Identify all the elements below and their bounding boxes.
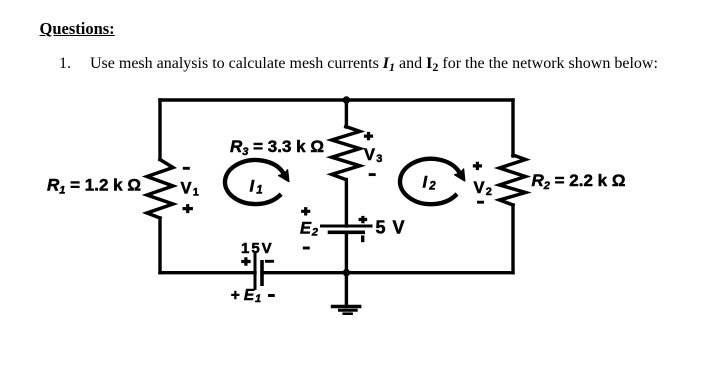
label V2 minus [477,201,484,204]
svg-text:I1: I1 [250,178,263,197]
resistor R2 [500,155,526,205]
battery E2 plate long [320,225,373,228]
battery E2 plate short [328,231,365,235]
svg-text:V1: V1 [181,180,199,199]
node top junction [343,96,350,103]
svg-text:R3 = 3.3 k Ω: R3 = 3.3 k Ω [230,137,324,158]
wire left lower [158,218,161,273]
mesh arrow I1 [225,160,289,204]
svg-text:I2: I2 [423,174,437,193]
wire right lower [511,205,514,273]
battery E1 minus mark [265,260,274,263]
label E2 plus [301,207,310,215]
battery E2 minus tick [361,235,364,242]
mesh arrow I2 [400,159,465,204]
svg-text:V3: V3 [364,146,382,165]
wire middle between R3 and E2 [345,180,348,227]
wire top [160,98,513,101]
svg-text:15V: 15V [241,240,274,257]
label V3 minus [369,173,376,176]
wire middle lower [345,232,348,272]
resistor R1 [147,160,173,219]
svg-text:+ E1: + E1 [231,287,262,305]
ground stem [345,273,348,307]
label E1 trailing minus [268,294,275,297]
node bottom junction [343,269,350,276]
svg-text:E2: E2 [300,219,318,238]
label V1 plus [183,204,193,213]
resistor R3 [332,127,360,180]
svg-text:V2: V2 [474,179,492,198]
label V3 plus [364,132,373,140]
battery E1 plate short [260,260,264,286]
wire bottom left of E1 [160,271,255,274]
label V1 minus [183,167,190,170]
ground bar 1 [331,305,362,308]
label V2 plus [473,162,482,170]
wire right upper [511,100,514,156]
svg-text:R2 = 2.2 k Ω: R2 = 2.2 k Ω [532,171,626,192]
wire bottom right of E1 [262,271,513,274]
wire middle upper [345,100,348,127]
label E2 minus [303,247,310,250]
heading Questions: [40,19,115,39]
svg-text:R1 = 1.2 k Ω: R1 = 1.2 k Ω [47,176,141,197]
svg-text:5 V: 5 V [376,218,406,238]
wire left upper [158,100,161,160]
ground bar 2 [338,309,358,312]
battery E1 plate long [254,252,257,290]
ground bar 3 [342,312,353,315]
battery E2 plus mark [359,216,368,223]
battery E1 plus mark [241,257,250,265]
question text line [59,55,658,75]
